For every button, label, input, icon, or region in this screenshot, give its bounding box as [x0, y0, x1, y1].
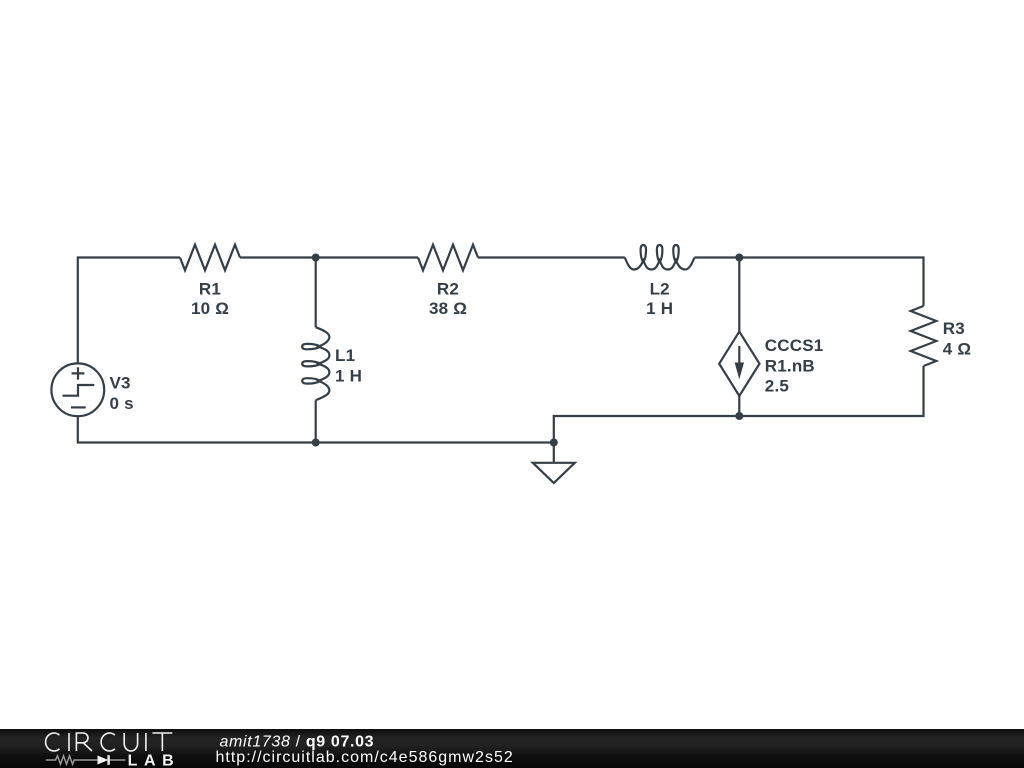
- svg-text:R1.nB: R1.nB: [765, 356, 815, 375]
- svg-text:R2: R2: [437, 280, 459, 299]
- svg-text:R3: R3: [943, 319, 965, 338]
- svg-text:R1: R1: [199, 280, 221, 299]
- svg-text:V3: V3: [110, 374, 131, 393]
- svg-text:1 H: 1 H: [646, 299, 673, 318]
- svg-text:L2: L2: [650, 280, 670, 299]
- svg-text:LAB: LAB: [128, 753, 181, 768]
- svg-text:0 s: 0 s: [110, 394, 134, 413]
- svg-text:4 Ω: 4 Ω: [943, 340, 971, 359]
- svg-text:10 Ω: 10 Ω: [191, 299, 229, 318]
- svg-text:amit1738 / q9 07.03: amit1738 / q9 07.03: [220, 733, 375, 750]
- svg-text:38 Ω: 38 Ω: [429, 299, 467, 318]
- svg-text:2.5: 2.5: [765, 377, 789, 396]
- svg-text:1 H: 1 H: [335, 367, 362, 386]
- svg-text:http://circuitlab.com/c4e586gm: http://circuitlab.com/c4e586gmw2s52: [216, 749, 514, 766]
- svg-text:L1: L1: [335, 346, 355, 365]
- svg-text:CCCS1: CCCS1: [765, 336, 824, 355]
